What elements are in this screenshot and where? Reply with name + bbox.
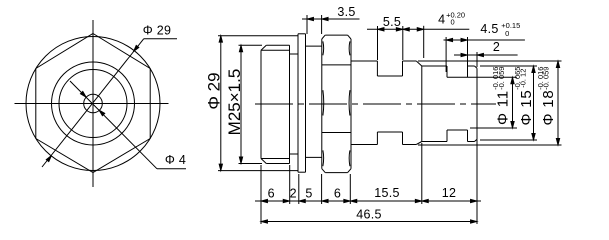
svg-text:15.5: 15.5	[374, 186, 400, 200]
svg-text:2: 2	[290, 187, 297, 201]
svg-text:+0.20: +0.20	[446, 11, 465, 20]
svg-text:Φ 11: Φ 11	[495, 90, 512, 125]
svg-text:5: 5	[305, 187, 312, 201]
svg-text:-0. 12: -0. 12	[518, 69, 527, 88]
svg-text:6: 6	[334, 187, 341, 201]
svg-text:-0. 059: -0. 059	[541, 67, 550, 90]
svg-text:M25×1.5: M25×1.5	[225, 69, 244, 136]
svg-text:6: 6	[268, 187, 275, 201]
svg-text:12: 12	[442, 186, 457, 200]
svg-text:Φ 15: Φ 15	[518, 89, 535, 125]
svg-text:2: 2	[493, 40, 500, 54]
svg-text:Φ 29: Φ 29	[205, 72, 224, 109]
svg-text:3.5: 3.5	[337, 5, 355, 19]
svg-text:0: 0	[451, 18, 455, 27]
svg-text:Φ 29: Φ 29	[143, 24, 172, 38]
svg-text:4.5: 4.5	[480, 22, 498, 36]
svg-text:Φ 4: Φ 4	[165, 153, 186, 167]
svg-text:Φ 18: Φ 18	[540, 89, 557, 125]
svg-text:46.5: 46.5	[356, 207, 382, 221]
svg-text:0: 0	[505, 29, 509, 38]
svg-text:5.5: 5.5	[383, 15, 401, 29]
svg-text:-0. 059: -0. 059	[497, 67, 506, 90]
svg-text:4: 4	[438, 12, 445, 26]
